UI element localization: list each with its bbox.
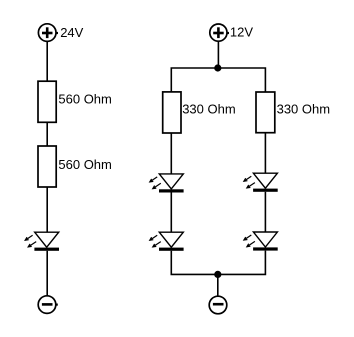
negative terminal left [38, 296, 58, 314]
wire LED D2 to LED D3 [170, 193, 172, 233]
supply +12V terminal V2 [210, 24, 229, 41]
bottom bus wire [171, 251, 265, 275]
resistor R2 560 Ohm [38, 146, 56, 187]
wire R2 to LED D1 [46, 187, 48, 232]
wire bottom node to negative terminal [217, 274, 219, 296]
wire R4 to LED D4 [264, 133, 266, 174]
svg-text:330 Ohm: 330 Ohm [182, 102, 235, 117]
svg-text:560 Ohm: 560 Ohm [58, 157, 111, 172]
negative terminal right [209, 296, 227, 314]
top bus wire [171, 68, 265, 92]
resistor R1 560 Ohm [38, 81, 56, 122]
resistor R3 330 Ohm [163, 92, 181, 133]
resistor R4 330 Ohm [256, 92, 275, 133]
svg-text:560 Ohm: 560 Ohm [58, 91, 111, 106]
LED D1 [25, 232, 59, 251]
wire R3 to LED D2 [170, 133, 172, 174]
LED D5 [244, 232, 278, 251]
LED D3 [150, 232, 184, 251]
wire V1 to R1 [46, 41, 48, 81]
svg-text:330 Ohm: 330 Ohm [277, 102, 330, 117]
junction node bottom [214, 271, 221, 278]
wire R1 to R2 [46, 122, 48, 146]
svg-text:24V: 24V [60, 25, 83, 40]
supply +24V terminal V1 [38, 24, 58, 42]
wire V2 to top node [217, 41, 219, 68]
LED D4 [244, 173, 278, 192]
LED D2 [150, 174, 184, 193]
svg-text:12V: 12V [230, 25, 253, 40]
junction node top [214, 64, 221, 71]
wire LED D1 to negative terminal [46, 251, 48, 296]
wire LED D4 to LED D5 [264, 192, 266, 232]
